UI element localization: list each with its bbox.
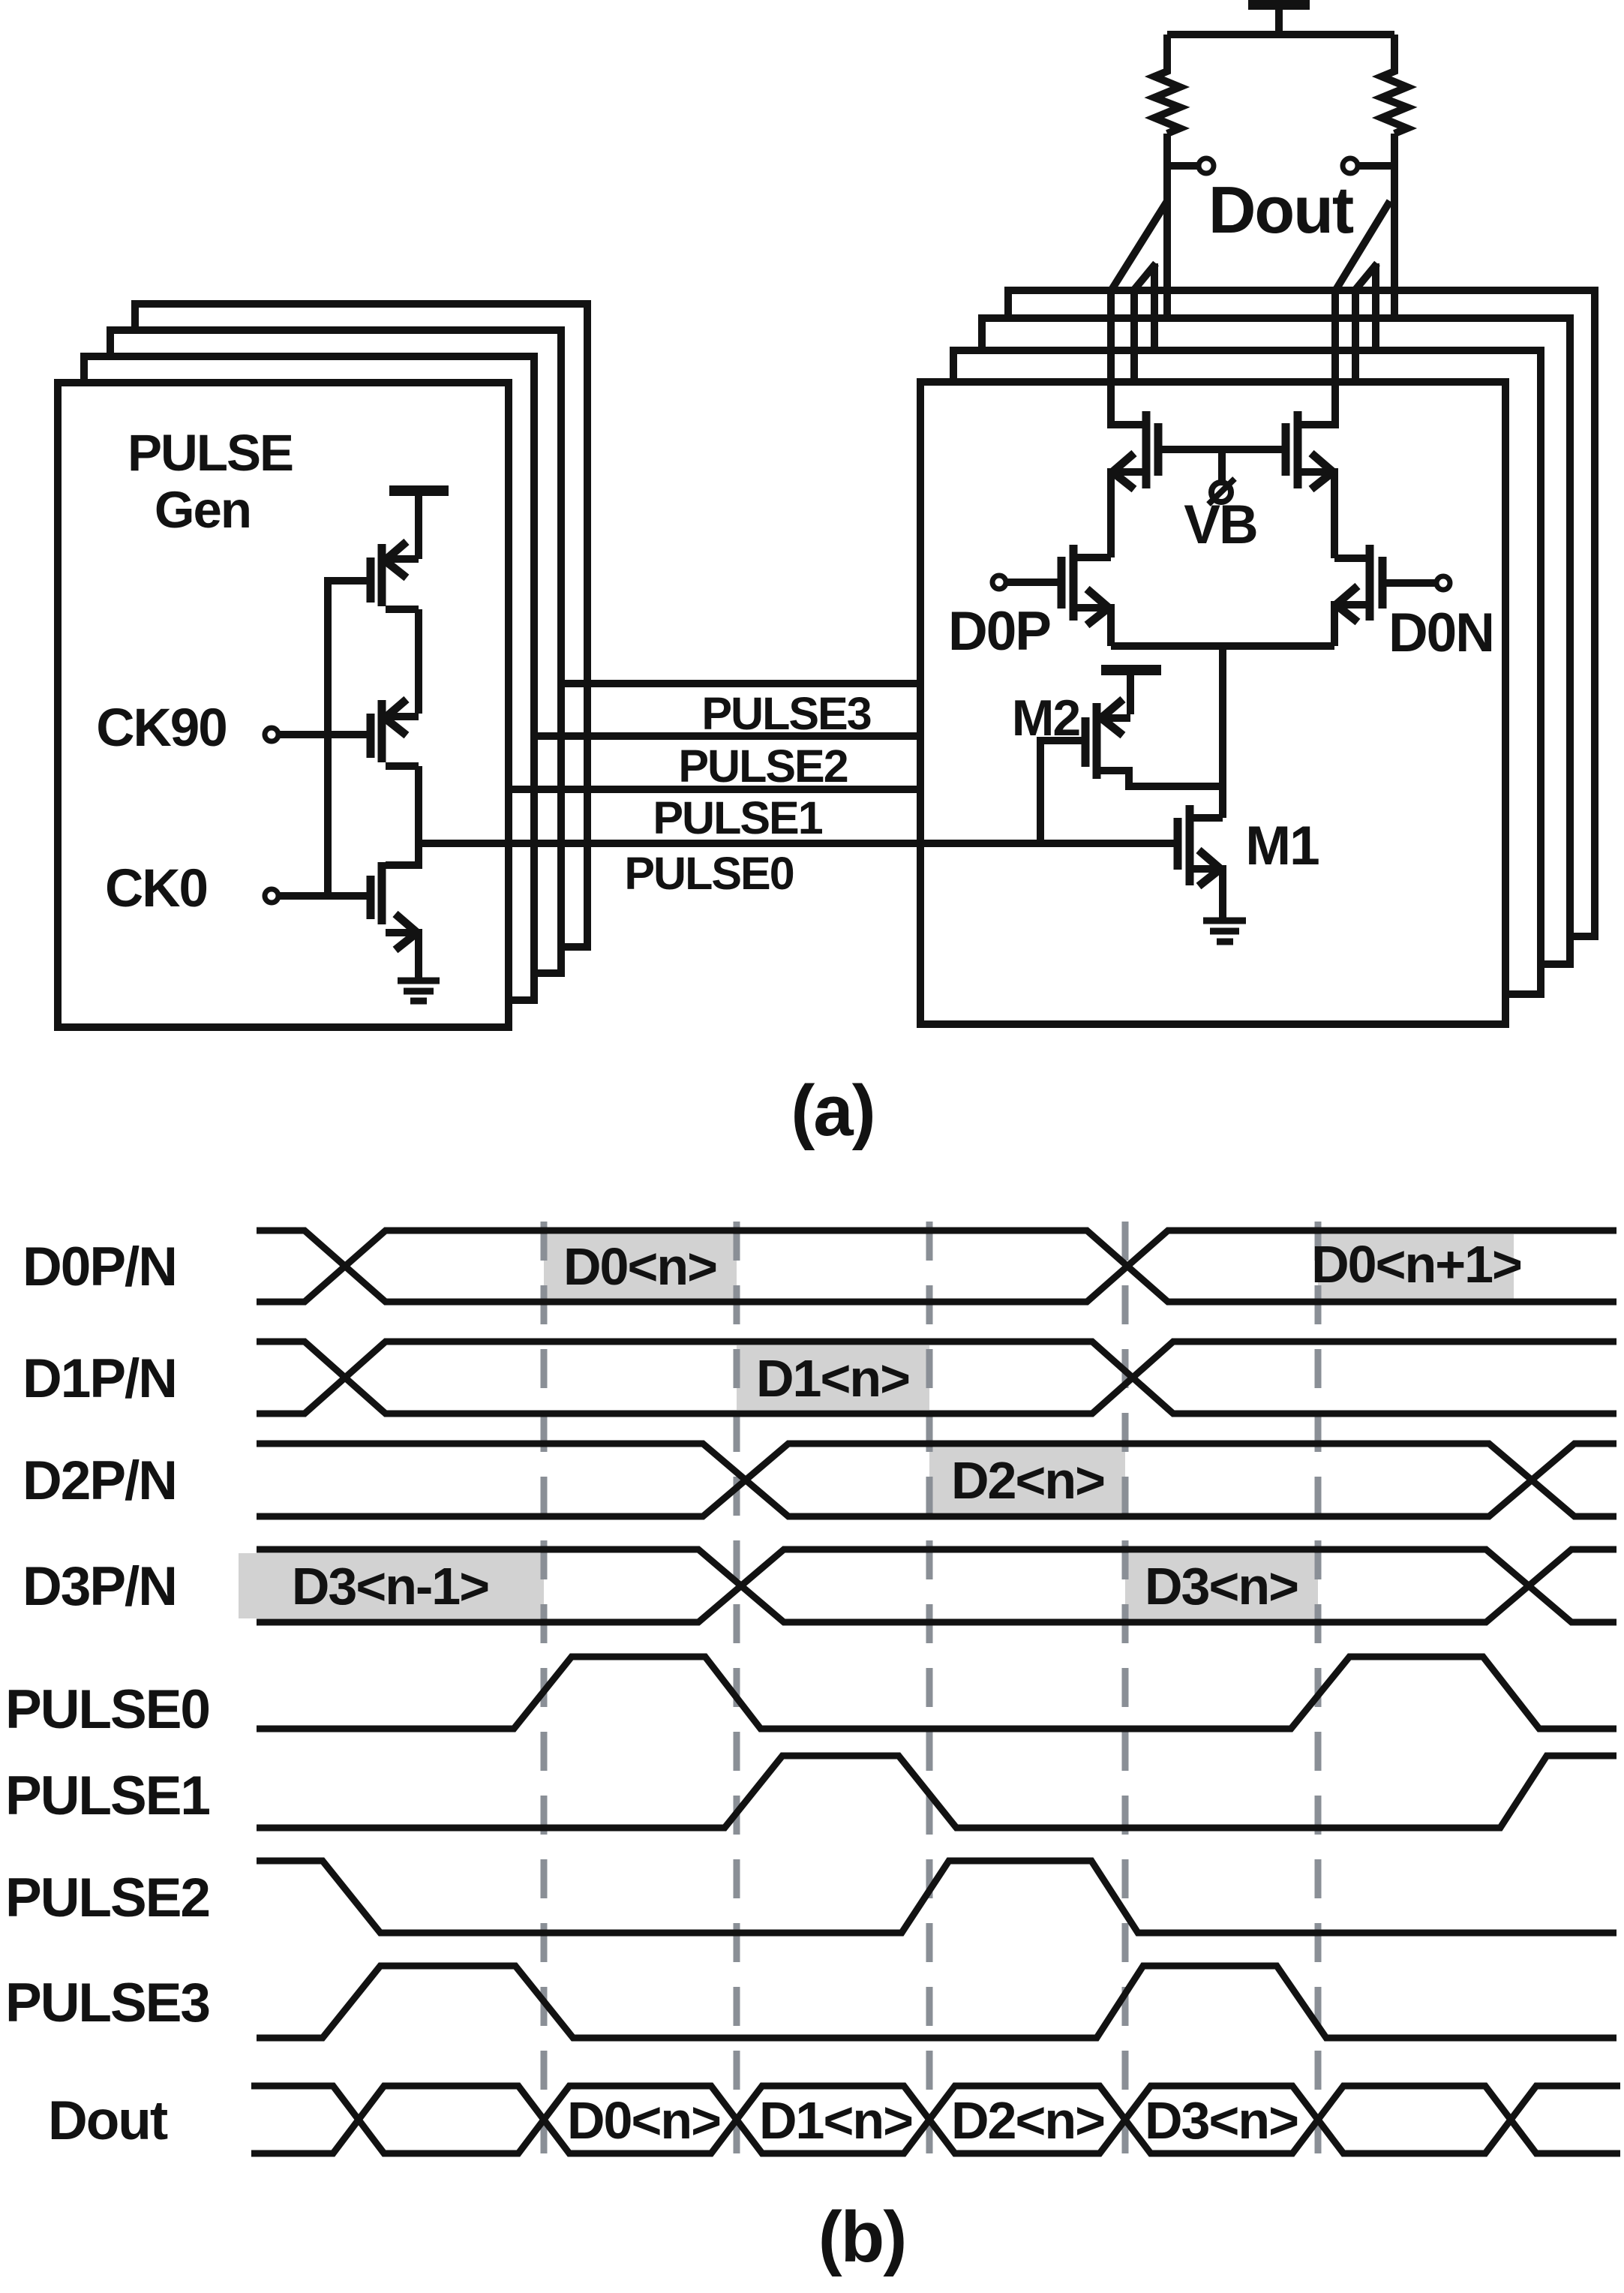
svg-text:PULSE2: PULSE2 <box>678 741 847 792</box>
diff MD2 source arrow <box>1336 586 1358 622</box>
diff transistor MD1 (D0P input) gate bar <box>1058 557 1066 609</box>
M1 source arrow <box>1199 850 1220 886</box>
diff MD1 source arrow <box>1087 589 1109 625</box>
PULSE Gen block stack: back rectangle 4 <box>135 304 587 947</box>
svg-text:PULSE0: PULSE0 <box>624 848 793 899</box>
transistor T1 channel bar <box>378 544 386 606</box>
MUX block stack: rectangle 3 <box>982 318 1570 964</box>
dashed grid line t5 <box>1315 1222 1322 2155</box>
left output bundle diagonal (layer 2) <box>1134 263 1156 290</box>
waveform D3P/N line 1 <box>257 1549 1616 1622</box>
svg-text:Dout: Dout <box>1208 173 1354 247</box>
svg-text:D1<n>: D1<n> <box>756 1349 909 1408</box>
svg-text:(b): (b) <box>818 2197 906 2277</box>
diff transistor MD2 (D0N input) gate bar <box>1379 557 1387 609</box>
ground symbol (M1 source) <box>1203 921 1246 942</box>
M2 drain wire from supply <box>1100 714 1130 722</box>
top supply rail <box>1167 31 1394 38</box>
D0N input circle and wire <box>1436 576 1450 590</box>
ground symbol (pulse gen) <box>398 981 440 1001</box>
wire PULSE2 <box>534 732 920 740</box>
right output vertical wire (layer 1 drain riser) <box>1301 290 1335 425</box>
svg-text:D0<n>: D0<n> <box>563 1237 716 1296</box>
waveform PULSE0 <box>257 1657 1616 1729</box>
cascode MC1 source wire down to diff pair <box>1111 472 1142 557</box>
svg-text:M2: M2 <box>1012 690 1080 747</box>
transistor T2 channel bar <box>378 700 386 762</box>
diff MD2 source wire to tail <box>1334 605 1367 646</box>
highlight box D1<n> <box>737 1345 929 1410</box>
waveform D0P/N line 1 <box>257 1231 1616 1302</box>
cascode MC2 source arrow <box>1311 453 1333 489</box>
svg-text:PULSE: PULSE <box>128 424 293 482</box>
M1 source wire <box>1193 869 1223 918</box>
cascode MC2 source wire down to diff pair <box>1301 472 1334 558</box>
wire PULSE1 <box>509 786 920 793</box>
svg-text:D3P/N: D3P/N <box>23 1556 176 1617</box>
transistor M1 gate bar <box>1174 818 1182 870</box>
left output bundle diagonal (layer 1) <box>1112 201 1167 290</box>
left output vertical wire (layer 1 drain riser) <box>1111 290 1145 425</box>
diff MD2 drain wire <box>1334 554 1367 562</box>
Dout right terminal stub and circle <box>1343 158 1358 173</box>
cascode transistor MC1 (left) gate bar <box>1154 423 1163 476</box>
load resistor RL1 (left) <box>1154 35 1180 134</box>
MUX block stack: back rectangle 4 <box>1008 290 1595 936</box>
cascode gate tie wire and VB stem <box>1158 449 1286 482</box>
highlight box D0<n+1> <box>1318 1234 1514 1299</box>
waveform D1P/N line 1 <box>257 1342 1616 1414</box>
svg-text:CK0: CK0 <box>105 859 207 918</box>
svg-text:PULSE0: PULSE0 <box>5 1679 209 1740</box>
svg-text:Dout: Dout <box>48 2090 168 2151</box>
dashed grid line t1 <box>541 1222 548 2155</box>
svg-text:Gen: Gen <box>155 481 251 539</box>
CK0 input terminal circle <box>265 889 278 903</box>
M1 drain wire <box>1193 814 1223 822</box>
svg-text:PULSE2: PULSE2 <box>5 1868 209 1928</box>
right output vertical wire (layer 3) <box>1372 263 1379 350</box>
transistor T1 (top PMOS of pulse gen) gate bar <box>367 557 375 603</box>
transistor T3 channel bar <box>378 862 386 924</box>
svg-text:PULSE3: PULSE3 <box>701 688 870 739</box>
highlight box D3<n-1> <box>239 1553 544 1618</box>
wire: left resistor to output node <box>1163 134 1171 318</box>
MUX block stack: front rectangle 1 <box>920 382 1505 1024</box>
Dout left terminal stub and circle <box>1167 162 1198 170</box>
waveform PULSE3 <box>257 1966 1616 2038</box>
transistor T2 drain/source wires <box>386 717 419 843</box>
waveform D1P/N line 2 <box>257 1342 1616 1414</box>
transistor M2 gate bar <box>1082 717 1090 767</box>
transistor T1 drain/source wires <box>386 559 419 714</box>
M2 supply bar <box>1101 670 1161 714</box>
waveform PULSE2 <box>257 1861 1616 1933</box>
waveform D2P/N line 2 <box>257 1444 1616 1516</box>
wire PULSE3 <box>561 680 920 687</box>
svg-text:CK90: CK90 <box>96 699 227 758</box>
transistor T2 (middle PMOS of pulse gen) gate bar <box>367 714 375 758</box>
diff MD1 channel bar <box>1070 545 1078 621</box>
svg-text:D3<n-1>: D3<n-1> <box>292 1557 488 1615</box>
waveform D3P/N line 2 <box>257 1549 1616 1622</box>
svg-text:D0<n+1>: D0<n+1> <box>1311 1235 1521 1294</box>
PULSE Gen block stack: rectangle 3 <box>110 330 561 973</box>
cascode MC1 source arrow <box>1112 453 1134 489</box>
diff MD1 drain wire <box>1077 554 1111 561</box>
highlight box D2<n> <box>929 1447 1125 1513</box>
VDD supply bar (output stage) <box>1248 5 1310 35</box>
svg-text:D2<n>: D2<n> <box>951 2091 1104 2150</box>
load resistor RL2 (right) <box>1382 35 1407 134</box>
transistor T2 arrow <box>385 699 407 735</box>
cascode transistor MC2 (right) gate bar <box>1282 423 1290 476</box>
transistor T3 (bottom NMOS of pulse gen) gate bar <box>367 876 375 919</box>
svg-text:PULSE1: PULSE1 <box>5 1766 209 1826</box>
transistor M1 channel bar <box>1186 805 1194 885</box>
CK90 wire <box>280 731 371 738</box>
dashed grid line t4 <box>1122 1222 1129 2155</box>
wire PULSE0 from pulse gen output to M1 gate <box>419 840 1175 847</box>
dashed grid line t3 <box>926 1222 933 2155</box>
diff pair tail wire <box>1111 646 1334 818</box>
waveform Dout line 1 <box>251 2086 1620 2153</box>
wire: right resistor to output node <box>1391 134 1398 318</box>
svg-text:D0P: D0P <box>948 601 1050 662</box>
MUX block stack: rectangle 2 <box>953 350 1541 994</box>
left output vertical wire (layer 2) <box>1130 290 1138 382</box>
VB no-connect slash circle <box>1208 479 1235 504</box>
CK90 input terminal circle <box>265 728 278 741</box>
svg-text:D0N: D0N <box>1388 603 1493 663</box>
M2 drain arrow <box>1101 699 1123 735</box>
transistor T1 arrow <box>385 542 407 578</box>
right output bundle diagonal (layer 1) <box>1336 201 1390 290</box>
cascode MC2 channel bar <box>1294 411 1302 488</box>
svg-text:D2<n>: D2<n> <box>951 1451 1104 1510</box>
diff MD2 channel bar <box>1366 545 1374 621</box>
M2 source wire to tail node <box>1100 771 1223 786</box>
svg-text:D3<n>: D3<n> <box>1145 2091 1298 2150</box>
svg-text:PULSE1: PULSE1 <box>653 792 822 843</box>
T1 gate tie wire to CK0 node <box>328 581 371 896</box>
transistor M2 channel bar <box>1093 703 1101 779</box>
M2 gate wire from PULSE0 <box>1040 741 1083 843</box>
svg-text:(a): (a) <box>791 1071 874 1151</box>
PULSE Gen block stack: rectangle 2 <box>84 356 534 1000</box>
waveform D2P/N line 1 <box>257 1444 1616 1516</box>
svg-text:VB: VB <box>1184 494 1256 555</box>
svg-text:D3<n>: D3<n> <box>1145 1557 1298 1615</box>
highlight box D0<n> <box>544 1234 737 1299</box>
svg-text:D1<n>: D1<n> <box>759 2091 912 2150</box>
waveform Dout line 2 <box>251 2086 1620 2153</box>
svg-text:D2P/N: D2P/N <box>23 1450 176 1511</box>
transistor T3 drain/source wires <box>386 843 419 978</box>
highlight box D3<n> <box>1125 1553 1318 1618</box>
left output vertical wire (layer 3) <box>1151 263 1158 350</box>
svg-text:D0P/N: D0P/N <box>23 1237 176 1297</box>
VDD supply bar (pulse gen) <box>389 491 449 559</box>
CK0 wire <box>280 892 371 900</box>
right output bundle diagonal (layer 2) <box>1355 263 1377 290</box>
svg-text:D1P/N: D1P/N <box>23 1348 176 1409</box>
dashed grid line t2 <box>734 1222 740 2155</box>
transistor T3 source arrow <box>395 914 417 950</box>
D0P input circle and wire <box>992 576 1006 589</box>
PULSE Gen block stack: front rectangle 1 <box>58 383 509 1027</box>
cascode MC1 channel bar <box>1142 411 1151 488</box>
svg-text:M1: M1 <box>1245 816 1319 876</box>
waveform PULSE1 <box>257 1756 1616 1828</box>
right output vertical wire (layer 2) <box>1352 290 1359 382</box>
svg-text:D0<n>: D0<n> <box>567 2091 720 2150</box>
diff MD1 source wire to tail <box>1077 608 1111 646</box>
waveform D0P/N line 2 <box>257 1231 1616 1302</box>
svg-text:PULSE3: PULSE3 <box>5 1973 209 2033</box>
